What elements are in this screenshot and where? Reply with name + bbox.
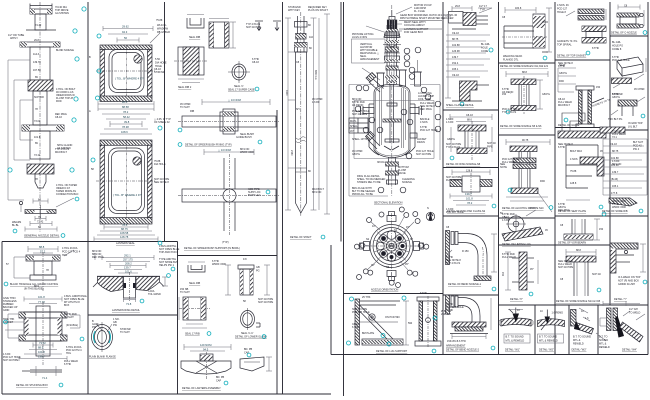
svg-text:SEAL RIB 2: SEAL RIB 2: [178, 86, 192, 89]
flanged nozzle box B3: [500, 139, 553, 212]
svg-text:GB PG: GB PG: [559, 72, 567, 75]
svg-text:△ 13 NOM: △ 13 NOM: [228, 98, 242, 102]
dimension chain table box D3: [600, 127, 647, 213]
svg-text:DETAIL OF C-NOZZLE: DETAIL OF C-NOZZLE: [611, 32, 637, 35]
svg-text:139.7: 139.7: [38, 355, 45, 359]
svg-text:139.7: 139.7: [124, 266, 131, 270]
svg-text:DETAIL-"W4": DETAIL-"W4": [622, 349, 637, 352]
svg-text:39.8: 39.8: [124, 120, 130, 124]
svg-text:LANTERN SEAL: LANTERN SEAL: [116, 242, 135, 245]
svg-text:88.75: 88.75: [612, 150, 619, 153]
stuffing box panel: top nozzle detail: [4, 245, 81, 292]
ring nozzle detail box A2: [446, 114, 496, 166]
svg-text:DETAIL OF STUFFING BOX: DETAIL OF STUFFING BOX: [16, 384, 48, 387]
svg-text:101.8: 101.8: [38, 295, 45, 299]
svg-text:TO SUIT: TO SUIT: [180, 291, 190, 294]
svg-text:GB.PG: GB.PG: [542, 93, 550, 96]
svg-text:RIB: RIB: [190, 110, 195, 113]
svg-text:2150: 2150: [290, 150, 293, 156]
svg-text:PCD 127 HOLE: PCD 127 HOLE: [420, 129, 438, 132]
lower gland: [27, 164, 54, 174]
svg-text:BOX: BOX: [64, 304, 70, 307]
svg-text:78.8: 78.8: [122, 223, 128, 227]
svg-text:150: 150: [599, 228, 604, 231]
edge stubs: [360, 212, 424, 281]
right lug view: [415, 296, 441, 348]
svg-text:HOL: HOL: [66, 352, 72, 355]
nozzle with pad box B2: [500, 71, 550, 128]
svg-text:GENERAL NOZZLE DETAIL: GENERAL NOZZLE DETAIL: [24, 234, 60, 238]
nozzle N14 box C5: [556, 249, 601, 303]
svg-text:REWELD: REWELD: [573, 343, 584, 346]
svg-text:101.8: 101.8: [34, 136, 41, 139]
svg-text:PAD: PAD: [559, 80, 564, 83]
svg-text:BLACK TRIANGLE GLL GRAND CASTI: BLACK TRIANGLE GLL GRAND CASTING: [10, 283, 58, 286]
svg-text:1.6: 1.6: [585, 317, 589, 320]
seal housing square: [174, 47, 208, 83]
svg-text:LVL BLT: LVL BLT: [628, 126, 638, 129]
angled nozzle top-left: [366, 73, 384, 93]
svg-text:TYP 4 PLCS: TYP 4 PLCS: [502, 111, 516, 114]
svg-text:128.8: 128.8: [570, 182, 577, 185]
svg-text:110: 110: [309, 36, 314, 39]
svg-text:GRIND FLUSH: GRIND FLUSH: [618, 283, 635, 286]
svg-text:TO SUIT: TO SUIT: [120, 331, 130, 334]
svg-text:108.6: 108.6: [121, 130, 128, 134]
svg-text:SCH 40 PIPE: SCH 40 PIPE: [258, 301, 273, 304]
svg-text:WNRF 150#: WNRF 150#: [212, 263, 226, 266]
svg-text:TYP 4 PLCS: TYP 4 PLCS: [446, 262, 460, 265]
svg-text:GB.PG: GB.PG: [447, 138, 455, 141]
lantern assembly flange: [184, 344, 231, 351]
lantern manhole views column 2: [89, 19, 171, 245]
svg-text:38 DIA: 38 DIA: [377, 161, 385, 164]
svg-text:DETAIL OF GUIDE: DETAIL OF GUIDE: [558, 124, 580, 127]
some nozzle detail box B1: [500, 7, 552, 68]
svg-text:MTL & REWELD: MTL & REWELD: [506, 340, 525, 343]
column 4: agitator shaft: [285, 6, 330, 239]
svg-text:GB PG: GB PG: [612, 96, 620, 99]
svg-text:101.8: 101.8: [466, 197, 473, 201]
svg-text:M16 BOLT: M16 BOLT: [55, 151, 67, 154]
svg-text:LUGS 4 NOS: LUGS 4 NOS: [352, 36, 367, 39]
svg-text:COOLING ARRGT: COOLING ARRGT: [404, 24, 425, 27]
svg-text:MATL: MATL: [350, 120, 357, 123]
ring pad class box A3: [447, 170, 496, 214]
svg-text:208.2: 208.2: [125, 262, 132, 266]
top annotation text block: [352, 4, 458, 61]
svg-text:C9-43: C9-43: [452, 32, 459, 35]
column 3 top: seal cap detail: [174, 15, 281, 251]
svg-text:167.50: 167.50: [33, 69, 41, 72]
weld detail W3: [571, 308, 594, 352]
svg-text:73 42: 73 42: [37, 221, 44, 224]
svg-text:150: 150: [596, 86, 601, 89]
svg-text:PG: PG: [256, 270, 260, 273]
channel detail box C2: [558, 64, 611, 133]
svg-text:150: 150: [501, 272, 504, 277]
svg-text:78.38: 78.38: [122, 125, 129, 129]
svg-text:DETAIL OF LUG SUPPORT: DETAIL OF LUG SUPPORT: [376, 350, 408, 353]
svg-text:45 CHMF: 45 CHMF: [634, 88, 645, 91]
svg-text:REF DWG: REF DWG: [558, 209, 570, 212]
svg-text:REWELD: REWELD: [599, 346, 610, 349]
svg-text:BM PLATE: BM PLATE: [362, 332, 375, 335]
svg-text:88.8: 88.8: [522, 71, 527, 74]
svg-text:4 NOS: 4 NOS: [570, 158, 578, 161]
plain blank flange panel: [89, 318, 120, 359]
svg-text:165.1: 165.1: [452, 68, 459, 71]
seal 17 view square: [179, 297, 210, 320]
svg-text:88.9 OD: 88.9 OD: [312, 191, 322, 194]
svg-text:165.1: 165.1: [612, 185, 619, 188]
svg-text:PLUS ON SHAFT: PLUS ON SHAFT: [308, 9, 328, 12]
svg-text:TYP 4 PLCS: TYP 4 PLCS: [446, 146, 460, 149]
svg-text:PCD 127 HOLE: PCD 127 HOLE: [352, 311, 370, 314]
svg-text:FULL WELD: FULL WELD: [446, 179, 460, 182]
svg-text:29.8: 29.8: [455, 5, 460, 8]
svg-text:C8-43: C8-43: [55, 116, 62, 119]
svg-text:(TYP): (TYP): [222, 241, 229, 244]
weld detail W1: [499, 308, 533, 352]
vessel dome: [374, 85, 410, 94]
svg-text:TO WELD: TO WELD: [629, 312, 641, 315]
svg-text:75.88: 75.88: [156, 19, 163, 22]
svg-text:TO SUIT: TO SUIT: [180, 106, 190, 109]
svg-text:25 THK: 25 THK: [362, 296, 371, 299]
lantern ring detail panel: [93, 245, 180, 312]
svg-text:ON PCD 590: ON PCD 590: [385, 316, 400, 319]
svg-text:APPLY: APPLY: [10, 37, 18, 40]
svg-text:77.78: 77.78: [38, 300, 45, 304]
svg-text:REF DWG: REF DWG: [92, 256, 104, 259]
col2 side annotations + balloons: [89, 19, 171, 171]
svg-text:PAD: PAD: [540, 180, 545, 183]
svg-text:184.8: 184.8: [515, 7, 522, 10]
blind nozzle flange: [20, 2, 60, 232]
svg-text:74.42: 74.42: [35, 24, 42, 27]
svg-text:WNRF 150#: WNRF 150#: [240, 151, 254, 154]
svg-text:TO SUIT: TO SUIT: [64, 316, 74, 319]
svg-text:CODE: CODE: [481, 50, 489, 53]
svg-text:88.75: 88.75: [452, 38, 459, 41]
svg-text:OF SHELL F2: OF SHELL F2: [154, 121, 170, 124]
svg-text:71.4: 71.4: [42, 376, 48, 380]
svg-text:DETAIL-"W1": DETAIL-"W1": [505, 349, 520, 352]
bottom dims: [94, 225, 158, 242]
small wedge detail: [240, 357, 264, 371]
mid dims: [98, 101, 154, 134]
svg-text:SEAL RIB: SEAL RIB: [189, 282, 200, 285]
svg-text:8 THK: 8 THK: [592, 47, 599, 50]
nozzle circles on plan: [377, 231, 407, 262]
svg-text:DETAIL OF ALCOHOL DIP PIPE N10: DETAIL OF ALCOHOL DIP PIPE N10: [502, 207, 544, 210]
svg-text:PRIOR ALL TO BE: PRIOR ALL TO BE: [352, 193, 373, 196]
svg-text:SEAL RIB: SEAL RIB: [189, 36, 200, 39]
internal shaft and impellers: [380, 84, 406, 150]
svg-text:DETAIL-"Y": DETAIL-"Y": [614, 298, 627, 301]
svg-text:R40: R40: [530, 207, 535, 210]
svg-text:TOP SPIRAL: TOP SPIRAL: [557, 44, 572, 47]
svg-text:1.6 REMD: 1.6 REMD: [552, 312, 564, 315]
main circles: [358, 213, 425, 279]
svg-text:B.T. TO SOUND: B.T. TO SOUND: [539, 336, 557, 339]
support cross detail: [204, 149, 254, 155]
svg-text:139.70: 139.70: [33, 61, 41, 64]
svg-text:SEAL 17 SUPER CASE: SEAL 17 SUPER CASE: [228, 89, 255, 92]
svg-text:RB.GT.BLR: RB.GT.BLR: [157, 31, 170, 34]
left lug view: [355, 299, 403, 345]
svg-text:( TOL. B° WHERE 4 97°: ( TOL. B° WHERE 4 97°: [113, 193, 142, 197]
detail X box B5: [501, 252, 538, 301]
svg-text:DETAIL OF SPIDER BUSH SUPPORT: DETAIL OF SPIDER BUSH SUPPORT (IN BOWL): [184, 247, 240, 250]
svg-text:FULL WELD: FULL WELD: [612, 133, 626, 136]
pipe with bottom flange box B4: [500, 207, 548, 246]
svg-text:TRK BLT PG: TRK BLT PG: [608, 118, 622, 121]
svg-text:GA SHOWN: GA SHOWN: [55, 12, 69, 15]
lug support details: [347, 292, 452, 353]
svg-text:NOZZLE ORIENTATION: NOZZLE ORIENTATION: [371, 289, 398, 292]
C-nozzle flange stack box D1: [611, 5, 647, 35]
callout balloons elevation: [355, 47, 441, 193]
lifting lug box C4: [558, 212, 606, 244]
bottom nozzle: [386, 158, 399, 186]
svg-text:DETAIL OF SOME NOZZLE N5 & N6: DETAIL OF SOME NOZZLE N5 & N6: [500, 125, 542, 128]
svg-text:DETAIL-"W3": DETAIL-"W3": [572, 349, 587, 352]
svg-text:GB PG: GB PG: [352, 153, 360, 156]
svg-text:SEE NOTE 8: SEE NOTE 8: [154, 181, 169, 184]
svg-text:JKT: JKT: [350, 130, 355, 133]
svg-text:STIFFNR: STIFFNR: [154, 71, 165, 74]
general nozzle detail column 1: [8, 2, 86, 238]
dome nozzles: [376, 60, 422, 86]
svg-text:15°: 15°: [406, 226, 410, 229]
svg-text:BOLT M16: BOLT M16: [570, 150, 582, 153]
svg-text:DETAIL OF LANTERN ASSEMBLY: DETAIL OF LANTERN ASSEMBLY: [182, 387, 221, 390]
svg-text:MTL & REWELD: MTL & REWELD: [539, 340, 558, 343]
svg-text:4 NOS: 4 NOS: [420, 121, 428, 124]
svg-text:DETAIL OF TOP GASKET: DETAIL OF TOP GASKET: [557, 55, 587, 58]
leader lines: [352, 39, 386, 63]
svg-text:DETAIL OF RING NOZZLE-N8: DETAIL OF RING NOZZLE-N8: [446, 163, 481, 166]
seal ring: [188, 262, 205, 272]
svg-text:6 THK: 6 THK: [558, 146, 565, 149]
svg-text:94.5: 94.5: [203, 348, 209, 352]
svg-text:C9-43: C9-43: [452, 74, 459, 77]
svg-text:1.6 RF: 1.6 RF: [446, 121, 454, 124]
svg-text:DETAIL OF SOME NOZZLES N11,N12: DETAIL OF SOME NOZZLES N11,N12 & N: [500, 65, 548, 68]
svg-text:SHELL 10THK: SHELL 10THK: [352, 138, 369, 141]
col1 callout balloons: [8, 7, 86, 172]
main vessel sectional elevation: [349, 4, 458, 205]
svg-text:DIA HOLE: DIA HOLE: [154, 163, 166, 166]
svg-text:73.1: 73.1: [612, 136, 617, 139]
svg-text:SCH 40 PIPE: SCH 40 PIPE: [416, 153, 431, 156]
svg-text:FLANGE DTL: FLANGE DTL: [503, 59, 519, 62]
svg-text:78.2: 78.2: [123, 110, 129, 114]
svg-text:SCH 40 PIPE: SCH 40 PIPE: [3, 359, 18, 362]
upper lantern view: [103, 26, 160, 43]
seal sleeve elevation: [209, 19, 229, 49]
svg-text:(B-43): (B-43): [611, 178, 618, 181]
right nozzles: [410, 106, 422, 138]
svg-text:HOL: HOL: [62, 254, 68, 257]
svg-text:88.9: 88.9: [38, 346, 44, 350]
svg-text:73.02: 73.02: [39, 341, 46, 345]
svg-text:45°: 45°: [405, 263, 409, 266]
svg-text:590: 590: [408, 322, 413, 325]
dimension frame: [349, 85, 440, 197]
left data table: [349, 118, 368, 133]
svg-text:114.3: 114.3: [33, 53, 40, 56]
spider bush assembly: [202, 99, 270, 105]
top gland flange: [26, 4, 56, 31]
svg-text:SCH 40 PIPE: SCH 40 PIPE: [246, 26, 261, 29]
bottom leader text: [352, 187, 375, 196]
svg-text:153×83×8.6 THK: 153×83×8.6 THK: [447, 340, 466, 343]
svg-text:HELPS PSI 1: HELPS PSI 1: [159, 264, 175, 267]
top gasket bars box C1: [557, 4, 606, 58]
svg-text:SCH 40: SCH 40: [592, 273, 601, 276]
svg-text:FL. FLGE: FL. FLGE: [414, 10, 425, 13]
svg-text:88.8: 88.8: [576, 249, 581, 252]
svg-text:FOR GEAR BOX: FOR GEAR BOX: [404, 31, 423, 34]
drive lantern column: [385, 25, 400, 84]
bottom seat assembly: [25, 205, 56, 218]
svg-text:DETAIL OF SOME RIB: DETAIL OF SOME RIB: [602, 210, 628, 213]
misc small texts around vessel: [352, 92, 434, 184]
svg-text:BL.BL: BL.BL: [12, 224, 19, 227]
svg-text:△ 13 NOM: △ 13 NOM: [218, 148, 232, 152]
isometric seat box D2: [608, 41, 646, 129]
svg-text:SH: SH: [296, 108, 300, 111]
svg-text:4100: 4100: [285, 90, 288, 96]
dished bottom: [374, 150, 410, 158]
svg-text:DETAIL OF BEND NOZZLE-1: DETAIL OF BEND NOZZLE-1: [448, 283, 482, 286]
svg-text:(IN THIS BLADE): (IN THIS BLADE): [24, 288, 44, 291]
svg-text:PSI 4: PSI 4: [633, 148, 640, 151]
svg-text:DETAIL OF SHAFT: DETAIL OF SHAFT: [290, 236, 312, 239]
svg-text:10°: 10°: [372, 225, 376, 228]
svg-text:88.6: 88.6: [467, 119, 472, 122]
svg-text:PLAIN BLANK FLANGE: PLAIN BLANK FLANGE: [89, 356, 116, 359]
svg-text:88.58: 88.58: [122, 105, 129, 109]
svg-text:RPM SUITABLE SHAFT MOUNTED RED: RPM SUITABLE SHAFT MOUNTED REDUCER: [400, 17, 454, 20]
svg-text:SCH40R: SCH40R: [34, 96, 44, 99]
svg-text:8 THK: 8 THK: [420, 292, 427, 295]
jacket: [369, 104, 415, 155]
svg-text:88.8: 88.8: [39, 245, 45, 249]
weld detail W2: [538, 310, 565, 352]
svg-text:WITH KEY: WITH KEY: [288, 9, 300, 12]
svg-text:VALVE: VALVE: [398, 172, 406, 175]
svg-text:45°: 45°: [530, 268, 534, 271]
svg-text:6 THK: 6 THK: [352, 326, 359, 329]
svg-text:ROD: ROD: [56, 100, 62, 103]
motor: [391, 10, 393, 16]
lower gland ellipse: [241, 308, 261, 330]
svg-text:58.42: 58.42: [123, 115, 130, 119]
svg-text:177.8: 177.8: [611, 192, 618, 195]
svg-text:TOP AND PCD 8: TOP AND PCD 8: [159, 251, 179, 254]
svg-text:30°: 30°: [371, 264, 375, 267]
svg-text:(R-SUB-E): (R-SUB-E): [66, 324, 78, 327]
svg-text:6 THK: 6 THK: [446, 309, 453, 312]
svg-text:SHELL FLANGE DETAIL: SHELL FLANGE DETAIL: [446, 104, 474, 107]
svg-text:102.88: 102.88: [452, 44, 460, 47]
svg-text:BLIND NOZZLE: BLIND NOZZLE: [56, 49, 74, 52]
svg-text:139.7: 139.7: [465, 192, 472, 196]
orientation callouts: [354, 207, 428, 288]
svg-text:TOL GRND: TOL GRND: [148, 293, 161, 296]
svg-text:73 42: 73 42: [34, 154, 41, 157]
svg-text:STRESS REL TO BE: STRESS REL TO BE: [357, 181, 381, 184]
svg-text:DETAIL OF BEND NOZZLE-2: DETAIL OF BEND NOZZLE-2: [446, 349, 480, 352]
agitator shaft centerline: [391, 5, 393, 196]
svg-text:88.75: 88.75: [121, 227, 128, 231]
svg-text:9.8: 9.8: [243, 258, 247, 261]
svg-text:GUIDE BUSH: GUIDE BUSH: [236, 136, 252, 139]
svg-text:CAP: CAP: [216, 380, 221, 383]
svg-text:8300 LG: 8300 LG: [314, 70, 317, 80]
svg-text:NOTE: NOTE: [500, 166, 507, 169]
mid flange: [22, 125, 64, 159]
svg-text:SHELL: SHELL: [350, 125, 359, 128]
shell walls: [374, 93, 410, 150]
svg-text:FULL WELD: FULL WELD: [502, 161, 516, 164]
svg-text:REF DWG: REF DWG: [420, 108, 432, 111]
svg-text:M16 BOLT: M16 BOLT: [558, 104, 570, 107]
svg-text:108.58: 108.58: [120, 231, 129, 235]
svg-text:DETAIL-"W2": DETAIL-"W2": [539, 349, 554, 352]
bend nozzle detail 1 box A5: [446, 226, 498, 291]
svg-text:DETAIL-"X": DETAIL-"X": [510, 298, 523, 301]
svg-text:BOTH LEG: BOTH LEG: [248, 194, 261, 197]
svg-text:DRAIN: DRAIN: [417, 141, 425, 144]
annotations col1: [8, 6, 79, 229]
svg-text:FULL WELD: FULL WELD: [502, 256, 516, 259]
nozzle orientation plan: [354, 207, 434, 292]
coupling hatched: [28, 80, 53, 91]
svg-text:PSI: PSI: [113, 324, 117, 327]
svg-text:73.8: 73.8: [126, 302, 132, 306]
svg-text:1.6 RF: 1.6 RF: [312, 101, 320, 104]
svg-text:78.2: 78.2: [467, 201, 473, 205]
svg-text:AS REQD: AS REQD: [502, 91, 513, 94]
svg-text:PIPE: PIPE: [487, 146, 493, 149]
svg-text:R 150: R 150: [462, 250, 469, 253]
svg-text:29.62: 29.62: [122, 25, 129, 29]
svg-text:C8-43: C8-43: [466, 114, 473, 117]
svg-text:128.8: 128.8: [466, 170, 473, 173]
svg-text:6 THK: 6 THK: [558, 65, 565, 68]
svg-text:NOZZLE: NOZZLE: [402, 181, 412, 184]
svg-text:CONNECTION BLN: CONNECTION BLN: [56, 193, 79, 196]
svg-text:126.98: 126.98: [452, 50, 460, 53]
svg-text:94.3: 94.3: [122, 30, 128, 34]
svg-text:GRID: GRID: [3, 309, 9, 312]
svg-text:28.8: 28.8: [122, 100, 128, 104]
bar and bracket box C3: [558, 131, 606, 213]
svg-text:139.7: 139.7: [452, 56, 459, 59]
column 3 bottom panel: [179, 258, 272, 390]
svg-text:90.75: 90.75: [522, 139, 529, 142]
stuffing box main detail: [3, 295, 88, 387]
svg-text:101.8: 101.8: [38, 350, 45, 354]
svg-text:( TOL. B° WHERE 4 97°: ( TOL. B° WHERE 4 97°: [115, 77, 144, 81]
north arrow: [426, 212, 434, 220]
svg-text:SEAL 17 RIB: SEAL 17 RIB: [185, 333, 200, 336]
